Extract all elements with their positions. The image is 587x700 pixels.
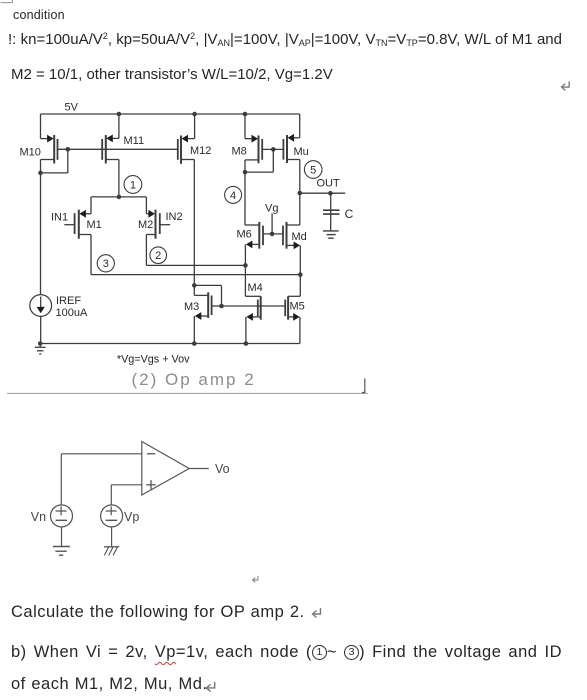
svg-text:OUT: OUT — [317, 177, 341, 189]
svg-text:M2: M2 — [138, 219, 153, 231]
svg-text:M11: M11 — [124, 135, 145, 147]
svg-text:Vo: Vo — [215, 462, 230, 476]
svg-text:IN1: IN1 — [51, 211, 68, 223]
svg-text:Vn: Vn — [31, 510, 46, 524]
svg-text:IN2: IN2 — [166, 211, 183, 223]
svg-text:M8: M8 — [232, 145, 247, 157]
svg-text:M10: M10 — [20, 147, 41, 159]
svg-text:Vp: Vp — [124, 510, 139, 524]
svg-text:3: 3 — [103, 258, 109, 270]
svg-text:M6: M6 — [237, 228, 252, 240]
svg-text:C: C — [345, 207, 354, 221]
svg-text:5: 5 — [310, 164, 316, 176]
svg-text:5V: 5V — [65, 102, 79, 114]
svg-text:M3: M3 — [184, 301, 199, 313]
svg-text:*Vg=Vgs + Vov: *Vg=Vgs + Vov — [117, 353, 190, 365]
svg-text:M1: M1 — [87, 219, 102, 231]
svg-text:M4: M4 — [248, 282, 263, 294]
svg-text:100uA: 100uA — [56, 307, 88, 319]
svg-text:M5: M5 — [290, 301, 305, 313]
svg-text:Mu: Mu — [294, 146, 309, 158]
svg-text:M12: M12 — [190, 145, 211, 157]
svg-text:Vg: Vg — [265, 203, 278, 215]
svg-text:IREF: IREF — [56, 295, 81, 307]
svg-text:1: 1 — [130, 179, 136, 191]
svg-text:2: 2 — [155, 250, 161, 262]
svg-text:Md: Md — [292, 231, 307, 243]
svg-text:4: 4 — [230, 190, 236, 202]
